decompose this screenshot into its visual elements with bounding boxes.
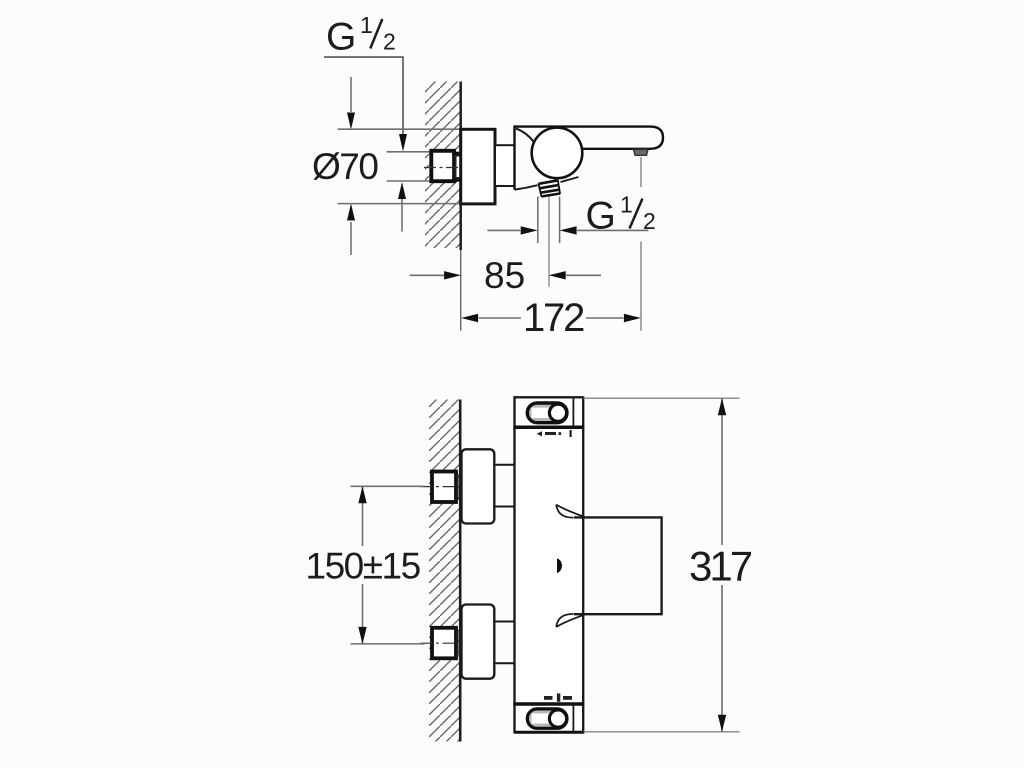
- svg-text:G: G: [326, 16, 356, 59]
- extension line flange top (Ø70): [338, 128, 461, 130]
- upper union centre line: [421, 486, 459, 488]
- wall flange (escutcheon, side view): [461, 129, 495, 204]
- svg-text:172: 172: [523, 296, 584, 340]
- label G 1/2 (shower outlet): [586, 192, 656, 238]
- spout aerator outlet: [634, 150, 649, 156]
- svg-text:Ø70: Ø70: [312, 146, 378, 187]
- wall face line (top view): [459, 82, 462, 331]
- upper S-union block: [462, 449, 495, 523]
- flange neck: [495, 145, 515, 186]
- wall hatch (top view): [425, 82, 461, 249]
- extension line flange bottom (Ø70): [338, 203, 461, 205]
- centre line of inlet (top view): [424, 167, 467, 169]
- bottom control knob box: [513, 704, 584, 732]
- dimension 172: [461, 296, 641, 340]
- leader line G1/2 to union nut: [324, 57, 407, 151]
- shower outlet elbow (ribbed nut): [538, 180, 560, 197]
- centre mark (half-moon): [557, 558, 562, 573]
- top control knob box: [513, 397, 584, 427]
- svg-text:150±15: 150±15: [306, 546, 421, 587]
- extension line spout outlet: [640, 157, 642, 331]
- wall hatch (front view): [429, 400, 460, 742]
- svg-text:1: 1: [360, 12, 373, 38]
- extension line nut top: [387, 151, 433, 153]
- mixer body with spout (side view): [515, 127, 664, 190]
- upper union nut: [432, 472, 458, 503]
- dimension Ø70 upper arrow: [347, 77, 355, 130]
- svg-text:2: 2: [643, 208, 656, 234]
- extension lines shower pipe: [538, 197, 560, 287]
- lower union neck: [494, 622, 516, 664]
- lower union nut: [432, 628, 458, 659]
- cartridge cap (circle): [532, 128, 583, 179]
- union nut (top view): [431, 151, 461, 181]
- thermostat body (front view): [515, 397, 584, 732]
- union nut lower arrow: [398, 182, 406, 232]
- svg-text:317: 317: [689, 543, 752, 590]
- extension line nut bottom: [387, 180, 433, 182]
- lower S-union block: [462, 605, 495, 679]
- dimension Ø70 lower arrow: [347, 204, 355, 256]
- dimension 150±15: [306, 486, 425, 644]
- upper union neck: [494, 465, 516, 507]
- dimension 85: [410, 255, 602, 296]
- lower union centre line: [421, 642, 459, 644]
- svg-text:1: 1: [620, 192, 633, 218]
- wall face line (front view): [459, 400, 462, 742]
- label G 1/2 (top inlet): [326, 12, 396, 59]
- svg-text:85: 85: [484, 255, 525, 296]
- mixer outlet housing (T-arm): [556, 505, 661, 627]
- dimension 317: [584, 398, 752, 732]
- bottom scale marks: [544, 693, 572, 701]
- svg-text:G: G: [586, 195, 616, 238]
- svg-text:2: 2: [383, 29, 396, 55]
- dimension shower outlet G1/2 (arrows): [487, 226, 648, 234]
- temperature scale marks: [537, 430, 572, 437]
